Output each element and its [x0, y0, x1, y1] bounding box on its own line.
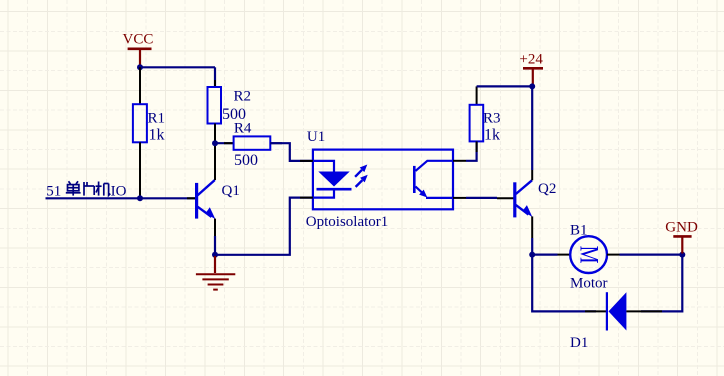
svg-text:1k: 1k [149, 126, 165, 143]
resistor R2 [208, 80, 222, 143]
wire VCC node horizontal [140, 66, 215, 68]
net label 51单片机IO [46, 181, 126, 199]
light arrow upper [355, 165, 367, 177]
svg-text:51: 51 [46, 183, 61, 199]
light arrow lower [356, 175, 368, 187]
svg-text:GND: GND [665, 220, 698, 236]
svg-text:+24: +24 [519, 52, 543, 68]
junction dot +24 node [529, 83, 535, 89]
power symbol +24 [519, 52, 543, 86]
pin 1 opto anode (black stub) [300, 160, 313, 162]
power symbol GND [665, 220, 698, 254]
transistor Q2 [497, 170, 532, 238]
wire VCC to R2 top [214, 67, 216, 87]
wire Q2 emitter down [531, 238, 533, 255]
wire R2 bottom to R4 [215, 142, 234, 144]
wire R3 top to +24 [477, 85, 533, 87]
motor B1 [558, 236, 620, 273]
svg-text:Motor: Motor [570, 276, 608, 292]
wire Q2 emitter node down to diode net [532, 255, 596, 312]
wire opto collector to R3 [466, 141, 477, 160]
resistor R1 [133, 67, 147, 198]
wire R4 to opto anode [270, 143, 313, 161]
junction dot Q1 emitter [212, 252, 218, 258]
svg-text:D1: D1 [570, 335, 588, 351]
pin 2 opto cathode (black stub) [300, 197, 313, 199]
wire +24 to Q2 collector [531, 86, 533, 170]
junction dot Q2 emitter node [529, 252, 535, 258]
svg-text:VCC: VCC [123, 32, 154, 48]
svg-text:1k: 1k [484, 127, 500, 144]
svg-text:500: 500 [234, 152, 258, 169]
junction dot GND node [679, 252, 685, 258]
transistor Q1 [187, 143, 215, 250]
wire opto emitter to Q2 base [466, 197, 497, 199]
svg-text:U1: U1 [307, 129, 325, 145]
phototransistor inside U1 [414, 161, 453, 198]
junction dot R2/R4/Q1 collector [212, 140, 218, 146]
wire IO net [46, 197, 197, 199]
wire motor to GND node [620, 254, 683, 256]
svg-text:Q2: Q2 [538, 181, 556, 197]
diode D1 [585, 292, 662, 330]
resistor R4 [224, 136, 282, 149]
ground [196, 256, 235, 290]
svg-text:Optoisolator1: Optoisolator1 [306, 214, 389, 230]
svg-text:M: M [575, 246, 604, 264]
junction dot VCC node [137, 64, 143, 70]
svg-text:R2: R2 [234, 89, 252, 105]
pin 4 opto collector (black stub) [453, 160, 466, 162]
op-amp U1 optoisolator box [313, 150, 453, 210]
resistor R3 [470, 86, 484, 152]
svg-text:R4: R4 [234, 121, 252, 137]
wire Q2 emitter to motor [532, 254, 557, 256]
svg-text:R1: R1 [148, 110, 166, 126]
wire Q1 emitter net [215, 198, 313, 255]
svg-text:R3: R3 [483, 111, 501, 127]
svg-text:B1: B1 [570, 223, 588, 239]
svg-text:Q1: Q1 [222, 183, 240, 199]
pin 3 opto emitter (black stub) [453, 197, 466, 199]
LED inside U1 [313, 161, 352, 198]
junction dot R1 bottom [137, 195, 143, 201]
wire GND node down to diode net [641, 255, 682, 312]
power symbol VCC [123, 32, 154, 67]
svg-text:IO: IO [111, 183, 127, 199]
